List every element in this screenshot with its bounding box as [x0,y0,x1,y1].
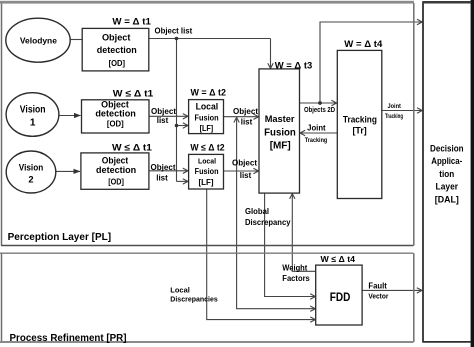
arrowhead Fault Vector into DAL [417,288,422,293]
arrowhead Joint Tracking into DAL [417,108,422,113]
svg-text:[LF]: [LF] [199,178,214,187]
junction node LF1 branch corner [175,124,179,128]
wire OD1 output (Object list bus) [149,38,271,40]
wire Velodyne object-list vertical branch [176,39,178,182]
svg-text:Velodyne: Velodyne [20,36,57,46]
sensor Vision2 ellipse [6,151,56,193]
sensor Velodyne ellipse [6,18,70,62]
wire LF2 to MF [224,170,258,172]
container PL Perception Layer box [1,2,414,246]
svg-text:W = Δ t3: W = Δ t3 [275,61,313,71]
wire branch into LF1 second input [177,125,188,127]
arrowhead Vision2 to OD3 [74,169,81,174]
arrowhead Local Discrepancy 1 into FDD [310,306,315,311]
svg-text:Objects 2D: Objects 2D [304,107,335,114]
svg-text:Joint: Joint [387,103,401,110]
wire MF Objects2D to Tracking [300,102,337,104]
wire Tracking Joint Tracking to DAL [382,110,421,112]
block OD2 Object detection [82,100,150,133]
svg-text:Object: Object [151,107,176,116]
svg-text:Local: Local [170,285,190,294]
svg-text:Object: Object [102,32,131,42]
container PR Process Refinement box [0,253,414,342]
svg-text:Joint: Joint [307,124,326,133]
svg-text:Decision: Decision [430,144,464,155]
arrowhead LF1 to MF [253,114,258,119]
svg-text:W = Δ t4: W = Δ t4 [344,39,382,49]
svg-text:tion: tion [439,169,454,180]
right black bar [471,0,474,347]
arrowhead branch to LF2 open [183,179,188,184]
block LF2 Local Fusion [189,154,224,189]
svg-text:[Tr]: [Tr] [353,126,367,136]
svg-text:list: list [156,174,168,183]
svg-text:Fusion: Fusion [195,167,219,176]
svg-text:Object: Object [151,163,176,172]
wire Local Discrepancy LF2 to FDD [207,189,315,319]
svg-text:W ≤ Δ t1: W ≤ Δ t1 [112,142,153,153]
svg-text:Global: Global [245,207,269,216]
block FDD [316,265,362,325]
arrowhead local discrepancy tap up [234,117,239,122]
svg-text:1: 1 [30,118,36,129]
block LF1 Local Fusion [189,100,224,134]
arrowhead Vision1 to OD2 [74,113,81,118]
svg-text:detection: detection [97,45,137,55]
arrowhead feedback into MF right [300,130,305,135]
svg-text:Discrepancies: Discrepancies [170,295,218,304]
BLOCKS [6,18,382,325]
wire OD2 to LF1 [149,115,187,117]
junction node Objects2D branch [318,101,322,105]
svg-text:Weight: Weight [282,263,307,272]
block MF Master Fusion [259,69,300,193]
wire Global Discrepancy MF to FDD [265,193,315,296]
arrowhead OD2 to LF1 open [183,114,188,119]
arrowhead into MF top [268,63,273,68]
arrowhead LF2 to MF [253,168,258,173]
wire Velodyne to OD1 [70,39,82,41]
svg-text:FDD: FDD [330,292,351,304]
svg-text:Perception Layer [PL]: Perception Layer [PL] [8,232,112,243]
svg-text:Vector: Vector [368,294,388,301]
wire branch into LF2 second input [177,180,188,182]
svg-text:Tracking: Tracking [305,137,328,144]
arrowhead Global Discrepancy into FDD [310,294,315,299]
svg-text:Layer: Layer [436,182,459,193]
wire Joint Tracking feedback to MF [301,132,337,134]
svg-text:Local: Local [198,157,216,166]
arrowheads [74,113,82,174]
block OD1 Object detection [82,28,149,71]
arrowhead weight factors into MF bottom [290,194,295,199]
svg-text:2: 2 [28,173,33,184]
arrowhead OD3 to LF2 open [183,168,188,173]
svg-text:[MF]: [MF] [270,141,291,152]
wire LF1 to MF [224,116,258,118]
svg-text:list: list [240,171,252,180]
arrowhead Local Discrepancy 2 into FDD [310,317,315,322]
wire OD3 to LF2 [149,170,187,172]
svg-text:Applica-: Applica- [431,156,462,167]
svg-text:Fusion: Fusion [195,113,219,122]
svg-text:Process Refinement [PR]: Process Refinement [PR] [10,333,127,344]
block Tr Tracking [337,50,382,198]
svg-text:W ≤ Δ t1: W ≤ Δ t1 [113,88,154,99]
svg-text:Object: Object [232,159,257,168]
svg-text:Object: Object [102,155,129,165]
arrowhead Objects2D into Tracking [331,100,336,105]
arrowhead top line into DAL [417,19,422,24]
svg-text:[OD]: [OD] [108,177,124,187]
svg-text:Fusion: Fusion [264,127,296,138]
svg-text:Vision: Vision [20,104,46,115]
svg-text:W = Δ t1: W = Δ t1 [112,16,151,27]
block DAL Decision Application Layer [422,1,471,342]
svg-text:[OD]: [OD] [109,58,126,68]
svg-text:Master: Master [265,113,295,124]
wire Objects2D branch up to DAL [320,22,421,103]
svg-text:[LF]: [LF] [200,124,214,133]
wire Vision2 to OD3 [56,170,80,172]
svg-text:[DAL]: [DAL] [435,194,459,205]
sensor Vision1 ellipse [6,93,59,137]
svg-text:list: list [241,118,253,127]
svg-text:W ≤ Δ t2: W ≤ Δ t2 [190,142,224,153]
wire FDD Fault Vector to DAL [362,289,421,291]
svg-text:Fault: Fault [368,281,387,290]
svg-text:Object: Object [233,107,258,116]
svg-text:Discrepancy: Discrepancy [245,218,291,227]
arrowhead branch to LF1 open [183,123,188,128]
wire Vision1 to OD2 [59,115,81,117]
svg-text:Object list: Object list [155,27,193,36]
svg-text:Local: Local [196,101,219,111]
svg-text:Vision: Vision [19,162,44,173]
svg-text:Tracking: Tracking [385,114,403,120]
svg-text:detection: detection [95,109,136,119]
svg-text:W ≤ Δ t4: W ≤ Δ t4 [321,254,356,264]
svg-text:[OD]: [OD] [107,118,124,128]
top gray bar PL top edge [0,1,414,4]
svg-text:list: list [157,116,169,125]
svg-text:Tracking: Tracking [343,113,377,124]
wire Local Discrepancy LF1 line to FDD [237,118,315,309]
block OD3 Object detection [81,153,149,189]
svg-text:detection: detection [96,165,136,175]
svg-text:Factors: Factors [282,274,310,283]
svg-text:W = Δ t2: W = Δ t2 [190,87,226,98]
wire down into MF top [270,39,272,68]
wire Weight Factors FDD to MF [292,195,315,271]
junction node OD1 object list [175,37,179,41]
